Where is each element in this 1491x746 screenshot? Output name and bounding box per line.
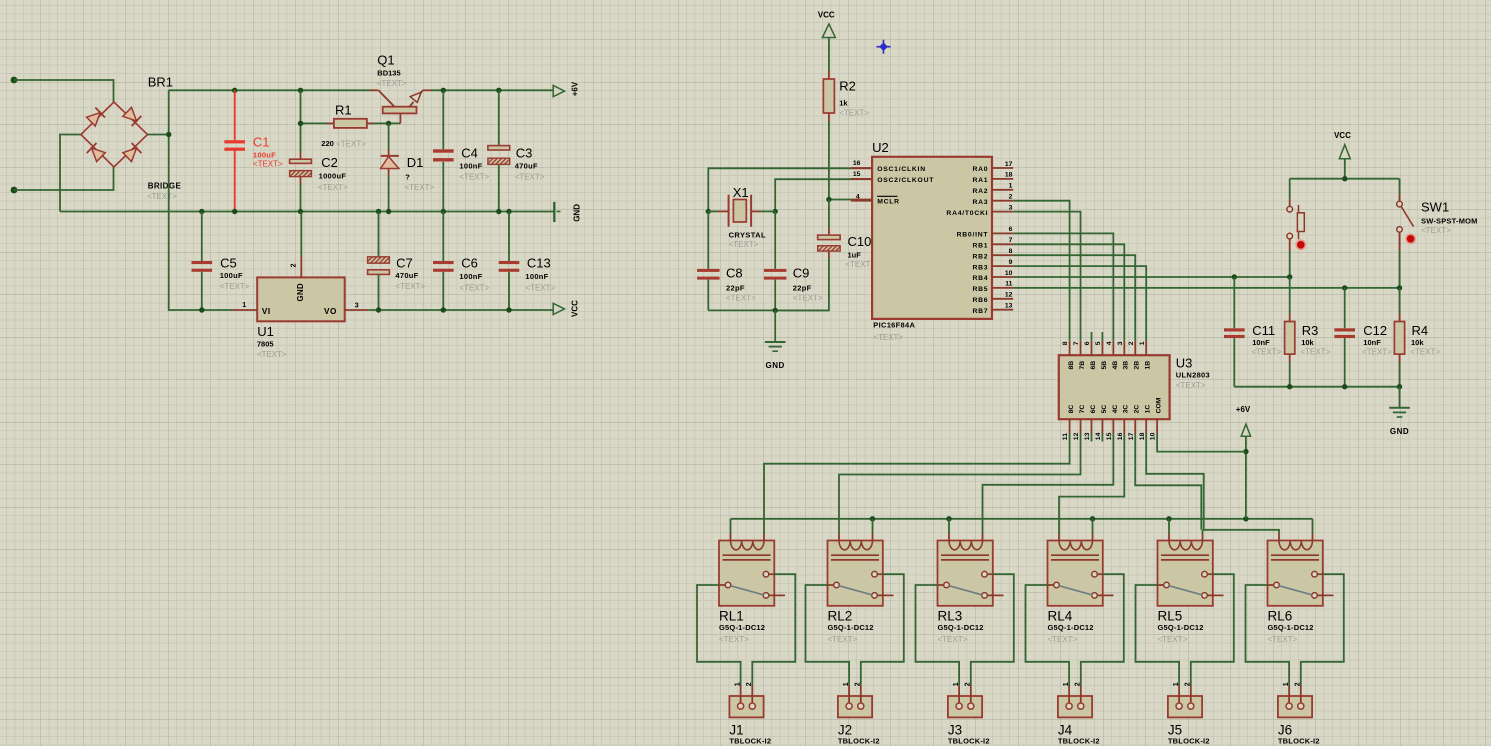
U3 pin 16 3C stub — [1123, 419, 1125, 433]
node gnd bus junction — [773, 308, 778, 313]
U3 pin 17 2C stub — [1134, 419, 1136, 433]
svg-text:RA2: RA2 — [972, 188, 988, 195]
RL4 common contact — [1048, 584, 1054, 586]
svg-text:13: 13 — [1084, 432, 1091, 440]
wire GND rail — [60, 211, 554, 213]
svg-text:RL4: RL4 — [1048, 609, 1073, 624]
svg-text:GND: GND — [572, 204, 581, 222]
svg-text:R1: R1 — [335, 103, 352, 118]
svg-text:C6: C6 — [461, 255, 478, 270]
connector J1 TBLOCK-I2 — [729, 696, 763, 717]
node R4 bottom — [1397, 384, 1402, 389]
node C1 top — [232, 88, 237, 93]
svg-text:2: 2 — [1128, 341, 1135, 345]
RL1 core — [723, 554, 771, 556]
svg-text:<TEXT>: <TEXT> — [845, 260, 875, 269]
svg-text:5C: 5C — [1101, 405, 1108, 414]
capacitor C6 — [442, 212, 444, 262]
svg-text:<TEXT>: <TEXT> — [793, 294, 823, 303]
U2 pin 9 RB3 — [992, 265, 1013, 267]
svg-text:RL2: RL2 — [828, 609, 853, 624]
svg-text:<TEXT>: <TEXT> — [1176, 381, 1206, 390]
svg-text:100uF: 100uF — [220, 271, 243, 280]
U3 pin 7 7B stub — [1080, 341, 1082, 355]
svg-text:4: 4 — [856, 194, 860, 201]
U2 pin 11 RB5 — [992, 287, 1013, 289]
wire top rail right segment to +6V — [432, 89, 553, 91]
svg-text:<TEXT>: <TEXT> — [873, 333, 903, 342]
node X1 left — [706, 209, 711, 214]
svg-text:1: 1 — [1009, 183, 1013, 190]
capacitor C8 — [707, 211, 709, 269]
svg-text:<TEXT>: <TEXT> — [405, 183, 435, 192]
wire +6V down to bus — [1245, 436, 1247, 519]
svg-text:RB7: RB7 — [972, 308, 988, 315]
U2 pin 10 RB4 — [992, 276, 1013, 278]
switch SW1a (push button) — [1289, 179, 1291, 200]
svg-text:RA0: RA0 — [972, 166, 988, 173]
svg-text:7805: 7805 — [257, 340, 274, 349]
svg-text:RA1: RA1 — [972, 177, 988, 184]
svg-text:17: 17 — [1005, 161, 1013, 168]
svg-text:C7: C7 — [396, 255, 413, 270]
svg-text:10nF: 10nF — [1252, 338, 1270, 347]
svg-text:1: 1 — [1139, 341, 1146, 345]
node VCC switch junction — [1342, 176, 1347, 181]
svg-text:D1: D1 — [407, 155, 424, 170]
svg-text:3: 3 — [1009, 204, 1013, 211]
svg-text:+6V: +6V — [570, 81, 579, 96]
svg-text:1: 1 — [953, 682, 960, 686]
svg-text:RL5: RL5 — [1158, 609, 1183, 624]
svg-text:16: 16 — [1117, 432, 1124, 440]
crystal X1 — [708, 210, 718, 212]
svg-text:J2: J2 — [838, 723, 852, 738]
svg-text:18: 18 — [1139, 432, 1146, 440]
svg-text:22pF: 22pF — [793, 283, 812, 292]
regulator U1 7805 — [257, 277, 345, 321]
node C4/C6 gnd — [441, 209, 446, 214]
svg-text:SW-SPST-MOM: SW-SPST-MOM — [1421, 217, 1478, 226]
svg-text:2: 2 — [1295, 682, 1302, 686]
switch SW1a state dot — [1296, 240, 1305, 249]
U3 pin 5 5B stub — [1101, 341, 1103, 355]
svg-text:<TEXT>: <TEXT> — [459, 173, 489, 182]
U2 pin 15 OSC2/CLKOUT — [851, 178, 872, 180]
node C6 out — [441, 307, 446, 312]
U3 pin 10 COM stub — [1156, 419, 1158, 433]
wire MCLR node to U2 — [829, 199, 851, 201]
wire OSC2 net — [851, 178, 872, 180]
wire RL6 NO loop to J6 pin 2 — [1301, 574, 1344, 685]
wire VCC rail (U1 output) — [368, 309, 553, 311]
wire OSC1 net — [851, 167, 872, 169]
svg-text:<TEXT>: <TEXT> — [726, 294, 756, 303]
wire RL2 NO loop to J2 pin 2 — [861, 574, 904, 685]
wire U3 pin 16 to RL4 coil — [1059, 434, 1124, 534]
svg-text:7C: 7C — [1079, 405, 1086, 414]
RL6 NO contact — [1312, 571, 1318, 577]
wire U3 pin 11 to RL1 coil — [764, 434, 1070, 534]
svg-text:RB3: RB3 — [972, 264, 988, 271]
node RL2 coil bus — [870, 516, 875, 521]
svg-text:4: 4 — [1106, 341, 1113, 345]
svg-text:16: 16 — [853, 160, 861, 167]
node C13 out — [506, 307, 511, 312]
svg-text:J5: J5 — [1168, 723, 1182, 738]
svg-text:BR1: BR1 — [148, 75, 173, 90]
U3 pin 15 4C stub — [1112, 419, 1114, 433]
svg-text:5B: 5B — [1101, 361, 1108, 370]
connector J4 TBLOCK-I2 — [1058, 696, 1092, 717]
U3 pin 12 7C stub — [1080, 419, 1082, 433]
wire RB1 to U3 3B — [1013, 244, 1124, 340]
U3 pin 6 6B stub — [1090, 341, 1092, 355]
wire input1 to bridge top — [14, 80, 114, 102]
svg-text:1000uF: 1000uF — [319, 171, 347, 180]
wire RA3 to U3 8B — [1013, 201, 1069, 341]
driver U3 ULN2803 — [1059, 355, 1170, 419]
node C4 top — [441, 88, 446, 93]
svg-text:R3: R3 — [1302, 323, 1319, 338]
node C12 bottom — [1342, 384, 1347, 389]
capacitor C3 (polarized) — [498, 90, 500, 145]
wire VCC to R2 — [828, 38, 830, 72]
capacitor C11 — [1233, 277, 1235, 328]
svg-text:2B: 2B — [1134, 361, 1141, 370]
svg-text:SW1: SW1 — [1421, 200, 1449, 215]
svg-text:3: 3 — [1117, 341, 1124, 345]
svg-text:G5Q-1-DC12: G5Q-1-DC12 — [1268, 623, 1314, 632]
U1 pin 3 VO stub — [345, 309, 369, 311]
U2 pin 1 RA2 — [992, 189, 1013, 191]
U2 pin 18 RA1 — [992, 178, 1013, 180]
svg-text:<TEXT>: <TEXT> — [459, 284, 489, 293]
wire bus to RL3 left coil — [948, 519, 950, 534]
wire input2 to bridge bottom — [14, 167, 114, 190]
svg-text:10: 10 — [1005, 270, 1013, 277]
svg-text:2: 2 — [746, 682, 753, 686]
svg-text:<TEXT>: <TEXT> — [1421, 226, 1451, 235]
RL4 NO contact — [1092, 571, 1098, 577]
RL6 common contact — [1268, 584, 1274, 586]
node C3 top — [496, 88, 501, 93]
node RL5 coil bus — [1166, 516, 1171, 521]
wire RL4 COM loop to J4 pin 1 — [1026, 585, 1070, 686]
node C5 in — [199, 307, 204, 312]
RL3 switch arm — [949, 586, 982, 595]
svg-text:8C: 8C — [1068, 405, 1075, 414]
svg-text:13: 13 — [1005, 303, 1013, 310]
U2 pin 7 RB1 — [992, 243, 1013, 245]
relay RL5 G5Q-1-DC12 — [1158, 541, 1213, 606]
capacitor C9 — [774, 211, 776, 269]
RL5 core — [1161, 554, 1209, 556]
svg-text:6: 6 — [1084, 341, 1091, 345]
RL1 switch arm — [731, 586, 764, 595]
node RL3 coil bus — [946, 516, 951, 521]
node C2 top — [298, 88, 303, 93]
wire bus to RL4 right coil — [1092, 519, 1094, 534]
svg-text:RA3: RA3 — [972, 199, 988, 206]
svg-text:G5Q-1-DC12: G5Q-1-DC12 — [1048, 623, 1094, 632]
svg-text:470uF: 470uF — [395, 271, 418, 280]
svg-text:VCC: VCC — [818, 11, 835, 20]
wire bridge left vertex to gnd rail — [60, 135, 81, 212]
svg-text:U2: U2 — [872, 140, 889, 155]
svg-text:C2: C2 — [321, 155, 338, 170]
svg-text:RL1: RL1 — [719, 609, 744, 624]
svg-text:MCLR: MCLR — [877, 199, 900, 206]
U3 pin 8 8B stub — [1069, 341, 1071, 355]
RL2 common contact — [828, 584, 834, 586]
svg-text:<TEXT>: <TEXT> — [1301, 348, 1331, 357]
svg-text:470uF: 470uF — [515, 162, 538, 171]
svg-text:1B: 1B — [1145, 361, 1152, 370]
svg-text:100nF: 100nF — [525, 272, 548, 281]
capacitor C7 (polarized) — [378, 212, 380, 257]
connector J2 TBLOCK-I2 — [838, 696, 872, 717]
diode D1 — [388, 123, 390, 149]
svg-text:17: 17 — [1128, 432, 1135, 440]
svg-text:6C: 6C — [1090, 405, 1097, 414]
capacitor C1 (selected, red) — [234, 90, 236, 140]
svg-text:<TEXT>: <TEXT> — [253, 160, 283, 169]
wire to gnd symbol right — [1399, 387, 1401, 408]
svg-text:<TEXT>: <TEXT> — [257, 350, 287, 359]
svg-text:<TEXT>: <TEXT> — [719, 635, 749, 644]
svg-text:3B: 3B — [1123, 361, 1130, 370]
svg-text:11: 11 — [1062, 433, 1069, 440]
svg-text:C1: C1 — [253, 135, 270, 150]
resistor R4 10k — [1399, 288, 1401, 314]
svg-text:COM: COM — [1156, 397, 1163, 413]
RL6 coil — [1279, 541, 1313, 550]
RL1 NO contact — [763, 571, 769, 577]
connector J5 TBLOCK-I2 — [1168, 696, 1202, 717]
RL3 NO contact — [982, 571, 988, 577]
svg-text:<TEXT>: <TEXT> — [515, 173, 545, 182]
svg-text:R4: R4 — [1412, 323, 1429, 338]
svg-text:2: 2 — [965, 682, 972, 686]
svg-text:1uF: 1uF — [848, 250, 862, 259]
U1 pin 1 VI stub — [232, 309, 257, 311]
capacitor C13 — [508, 212, 510, 262]
wire RL6 COM loop to J6 pin 1 — [1246, 585, 1290, 686]
svg-text:14: 14 — [1095, 432, 1102, 440]
svg-text:15: 15 — [1106, 432, 1113, 440]
RL1 coil — [731, 541, 764, 550]
wire bus left end to RL1 coil — [730, 519, 732, 534]
node C7 gnd — [376, 209, 381, 214]
svg-text:J4: J4 — [1058, 723, 1073, 738]
svg-text:3: 3 — [355, 303, 359, 310]
svg-text:RB0/INT: RB0/INT — [957, 232, 989, 239]
U2 pin 13 RB7 — [992, 309, 1013, 311]
svg-text:8: 8 — [1009, 248, 1013, 255]
RL4 coil — [1059, 541, 1093, 550]
node input terminal 2 — [11, 187, 18, 194]
RL3 coil — [949, 541, 982, 550]
svg-text:<TEXT>: <TEXT> — [1048, 635, 1078, 644]
svg-text:VI: VI — [262, 307, 271, 316]
connector J3 TBLOCK-I2 — [948, 696, 982, 717]
RL2 switch arm — [839, 586, 872, 595]
RL2 coil — [839, 541, 872, 550]
wire C2 branch — [300, 90, 302, 152]
wire RL1 NO loop to J1 pin 2 — [752, 574, 795, 685]
svg-text:?: ? — [405, 173, 410, 182]
svg-text:4C: 4C — [1112, 405, 1119, 414]
svg-text:10nF: 10nF — [1363, 338, 1381, 347]
svg-text:<TEXT>: <TEXT> — [1158, 635, 1188, 644]
svg-text:TBLOCK-I2: TBLOCK-I2 — [729, 737, 771, 746]
svg-text:<TEXT>: <TEXT> — [147, 192, 177, 201]
U3 unconnected input stubs 6B 5B — [1090, 332, 1092, 341]
svg-text:1: 1 — [242, 302, 246, 309]
svg-text:<TEXT>: <TEXT> — [938, 635, 968, 644]
power flag VCC (left section) — [553, 303, 564, 314]
svg-text:100nF: 100nF — [459, 272, 482, 281]
node RB5-SW1 junction — [1397, 285, 1402, 290]
wire switch bottom rail — [1234, 386, 1399, 388]
switch SW1 (SW-SPST-MOM) — [1399, 179, 1401, 195]
svg-text:10k: 10k — [1411, 338, 1424, 347]
svg-text:5: 5 — [1095, 341, 1102, 345]
svg-text:C13: C13 — [527, 255, 551, 270]
relay RL2 G5Q-1-DC12 — [828, 541, 883, 606]
wire bus right end to RL6 coil — [1312, 519, 1314, 534]
U2 pin 16 OSC1/CLKIN — [851, 167, 872, 169]
node X1 right — [773, 209, 778, 214]
svg-text:7: 7 — [1073, 341, 1080, 345]
U2 pin 6 RB0/INT — [992, 232, 1013, 234]
power flag +6V (left section) — [553, 86, 564, 97]
svg-text:RL6: RL6 — [1268, 609, 1293, 624]
svg-text:22pF: 22pF — [726, 283, 745, 292]
svg-text:18: 18 — [1005, 172, 1013, 179]
svg-text:<TEXT>: <TEXT> — [318, 183, 348, 192]
svg-text:TBLOCK-I2: TBLOCK-I2 — [1168, 737, 1210, 746]
node R3 bottom — [1287, 384, 1292, 389]
transistor Q1 BD135 — [370, 89, 378, 91]
svg-text:<TEXT>: <TEXT> — [1252, 348, 1282, 357]
U3 pin 13 6C stub — [1090, 419, 1092, 433]
RL2 NO contact — [872, 571, 878, 577]
U3 pin 3 3B stub — [1123, 341, 1125, 355]
RL6 NC contact — [1312, 593, 1318, 599]
wire bus to RL2 right coil — [872, 519, 874, 534]
node COM junction — [1243, 449, 1248, 454]
svg-text:3C: 3C — [1123, 405, 1130, 414]
U3 pin 14 5C stub — [1101, 419, 1103, 433]
wire R2 to MCLR node — [828, 121, 830, 200]
svg-text:1: 1 — [734, 682, 741, 686]
node C7 out — [376, 307, 381, 312]
svg-text:6B: 6B — [1090, 361, 1097, 370]
wire to gnd symbol — [774, 310, 776, 341]
svg-text:GND: GND — [1390, 427, 1409, 436]
svg-text:C3: C3 — [516, 146, 533, 161]
U2 pin 2 RA3 — [992, 200, 1013, 202]
wire RL3 NO loop to J3 pin 2 — [971, 574, 1014, 685]
svg-text:2C: 2C — [1134, 405, 1141, 414]
wire RL2 COM loop to J2 pin 1 — [806, 585, 850, 686]
wire RB4 to switch node — [1013, 276, 1289, 278]
RL2 NC contact — [872, 593, 878, 599]
svg-text:J6: J6 — [1278, 723, 1292, 738]
wire RL5 signal stub join — [1202, 530, 1204, 534]
RL5 switch arm — [1169, 586, 1202, 595]
node C11 top — [1232, 274, 1237, 279]
node MCLR junction — [826, 197, 831, 202]
U3 pin 11 8C stub — [1069, 419, 1071, 433]
svg-text:RL3: RL3 — [938, 609, 963, 624]
svg-text:10: 10 — [1150, 432, 1157, 440]
svg-text:VCC: VCC — [570, 300, 579, 317]
wire U3 pin 12 to RL2 coil — [839, 434, 1081, 534]
svg-text:C10: C10 — [848, 234, 872, 249]
svg-text:2: 2 — [1075, 682, 1082, 686]
svg-text:GND: GND — [766, 361, 785, 370]
wire RB5 to SW1 node — [1013, 287, 1399, 289]
U3 unconnected output stubs 13 14 — [1090, 434, 1092, 442]
microcontroller U2 PIC16F84A — [872, 157, 992, 319]
wire RB0 to U3 4B — [1013, 233, 1113, 340]
svg-text:G5Q-1-DC12: G5Q-1-DC12 — [938, 623, 984, 632]
node bridge output junction — [166, 132, 171, 137]
wire U3 COM to +6V — [1157, 434, 1246, 452]
svg-text:C11: C11 — [1252, 323, 1275, 338]
svg-text:10k: 10k — [1301, 338, 1314, 347]
svg-text:2: 2 — [291, 263, 298, 267]
svg-text:RB6: RB6 — [972, 297, 988, 304]
svg-text:J3: J3 — [948, 723, 962, 738]
connector J6 TBLOCK-I2 — [1278, 696, 1312, 717]
wire U3 pin 17 to RL5 coil — [1135, 434, 1201, 530]
svg-text:100nF: 100nF — [459, 162, 482, 171]
switch SW1 state dot — [1406, 234, 1415, 243]
node input terminal 1 — [11, 77, 18, 84]
capacitor C2 (polarized) — [300, 152, 302, 159]
svg-text:TBLOCK-I2: TBLOCK-I2 — [1278, 737, 1320, 746]
U2 pin 12 RB6 — [992, 298, 1013, 300]
svg-text:<TEXT>: <TEXT> — [395, 282, 425, 291]
svg-text:<TEXT>: <TEXT> — [336, 139, 366, 148]
svg-text:1: 1 — [1173, 682, 1180, 686]
svg-text:<TEXT>: <TEXT> — [377, 79, 407, 88]
svg-text:2: 2 — [855, 682, 862, 686]
U3 pin 1 1B stub — [1145, 341, 1147, 355]
wire crystal gnd bus — [708, 309, 829, 311]
capacitor C12 — [1344, 288, 1346, 328]
RL6 switch arm — [1279, 586, 1312, 595]
node C5 gnd — [199, 209, 204, 214]
svg-text:C8: C8 — [726, 266, 743, 281]
resistor R3 10k — [1289, 277, 1291, 314]
svg-text:C5: C5 — [220, 255, 237, 270]
origin marker (blue) — [877, 40, 891, 54]
node RB4-SW1a junction — [1287, 274, 1292, 279]
wire Q1 base — [399, 113, 401, 123]
U3 pin 4 4B stub — [1112, 341, 1114, 355]
svg-text:9: 9 — [1009, 259, 1013, 266]
RL3 core — [941, 554, 989, 556]
U2 pin 17 RA0 — [992, 167, 1013, 169]
U2 pin 3 RA4/T0CKI — [992, 211, 1013, 213]
U3 pin 2 2B stub — [1134, 341, 1136, 355]
RL5 NC contact — [1202, 593, 1208, 599]
